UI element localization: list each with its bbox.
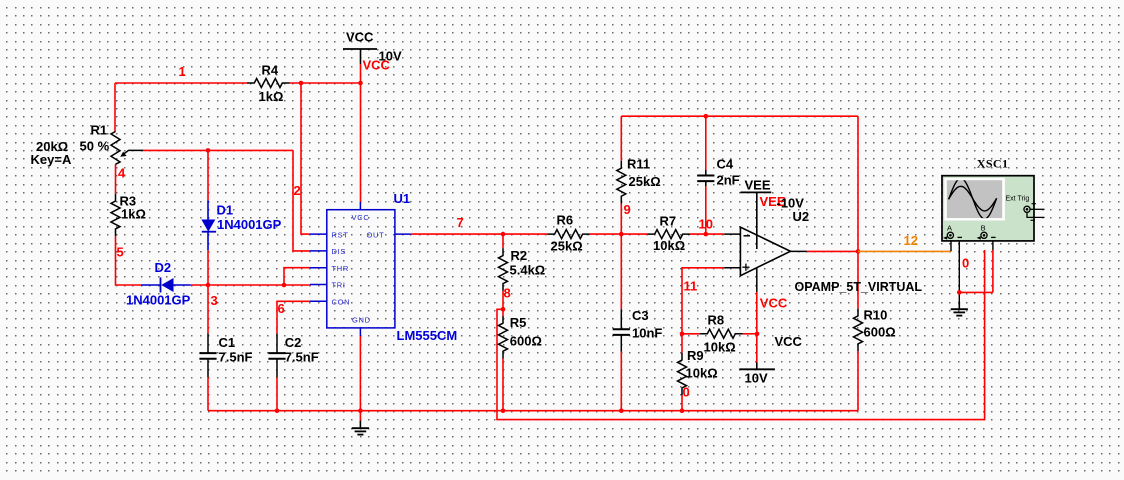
capacitor C3 [613,309,630,351]
net label 9 [624,202,631,217]
label R10 [864,308,888,323]
value C4 [717,173,740,188]
net label 6 [278,301,285,316]
wire net 11 opamp + input [682,268,724,334]
resistor R6 [547,230,590,239]
capacitor C1 [199,333,216,377]
value R1 20k [36,139,68,154]
svg-text:1N4001GP: 1N4001GP [217,217,282,232]
svg-text:R1: R1 [91,123,108,138]
value R10 [864,325,896,340]
value R11 [629,174,661,189]
wire ground bus [208,410,858,412]
wire net 4 [115,164,117,193]
wire R11 bottom lead [620,204,622,235]
XSC1 label Ext Trig [1006,195,1030,202]
wire R9 bottom lead [681,395,683,410]
capacitor C4 [697,170,714,186]
junction node1/VCC [358,81,363,86]
svg-text:VCC: VCC [775,334,803,349]
XSC1 ext trig terminal [1024,202,1045,221]
junction node1/RST [299,81,304,86]
svg-text:C1: C1 [219,335,236,350]
label D2 [155,260,172,275]
junction node11/R8/R9 [680,332,685,337]
svg-text:U2: U2 [793,209,810,224]
value R9 [686,366,718,381]
wire scope A- to ground [958,241,960,309]
svg-text:7.5nF: 7.5nF [219,350,253,365]
svg-text:10kΩ: 10kΩ [653,238,685,253]
oscilloscope XSC1 body and screen [942,176,1034,241]
value C2 [285,350,319,365]
wire net 7 [411,233,548,235]
U1 pin label TRI [332,281,346,290]
wire opamp VCC column [756,292,758,363]
XSC1 terminal A [943,232,962,239]
svg-text:8: 8 [504,286,511,301]
wire R10 bottom [857,351,859,411]
diode D1 [201,200,216,250]
power VCC symbol bottom [739,334,802,386]
wire net 7 right of R6 [590,233,648,235]
resistor R2 [499,248,508,291]
wire opamp output [807,250,858,252]
net label 7 [457,215,464,230]
wire net 3 D1 bottom to C1 [207,250,209,333]
wire net 9 right of R7 [690,233,724,235]
wire R11 top lead [620,116,622,161]
U2 output pin [790,250,806,252]
svg-text:9: 9 [624,202,631,217]
resistor R7 [647,230,690,239]
junction bus/R9 [680,408,685,413]
wire scope A+ stub [950,238,952,251]
svg-text:R4: R4 [262,63,279,78]
svg-text:R10: R10 [864,308,888,323]
wire RST branch [301,83,310,234]
resistor R3 [111,194,120,237]
value R7 [653,238,685,253]
junction net7/R2 [501,232,506,237]
svg-text:4: 4 [118,166,126,181]
potentiometer R1 [111,132,143,165]
U1 pin label VCC [352,213,370,222]
svg-text:VCC: VCC [760,296,788,311]
junction net9 [619,232,624,237]
net label 3 [211,293,218,308]
junction bus/R5 [501,408,506,413]
net label 4 [118,166,126,181]
label R1 [91,123,108,138]
XSC1 terminal B [977,232,996,239]
junction R8/VCC [755,332,760,337]
net label 1 [179,64,186,79]
net label 10 [699,217,713,232]
svg-text:12: 12 [904,233,918,248]
svg-text:Ext Trig: Ext Trig [1006,195,1030,202]
label C3 [632,308,649,323]
wire VCC column to U1 VCC pin [360,64,362,202]
net label VCC (red) bottom [760,296,788,311]
junction bus/C2 [275,408,280,413]
svg-text:R6: R6 [557,213,574,228]
U1 pin label RST [332,230,349,239]
wire net 1 left rail [115,83,247,132]
junction net3/D1 [206,283,211,288]
U2 noninverting input pin [724,267,740,269]
label R9 [687,348,704,363]
U1 pin label OUT [367,230,385,239]
power VCC symbol top [343,30,402,65]
svg-text:1N4001GP: 1N4001GP [126,293,191,308]
wire C1 bottom [207,377,209,410]
junction net2/D1 top [206,148,211,153]
svg-text:CON: CON [332,298,351,307]
svg-text:10: 10 [699,217,713,232]
wire R8 right lead [743,333,758,335]
wire C3 bottom lead [620,352,622,411]
op-amp U1 LM555 body [327,210,395,328]
svg-text:XSC1: XSC1 [977,157,1009,171]
value R5 [510,334,542,349]
wire R2 top lead [502,234,504,248]
ground symbol scope [951,302,968,316]
U2 minus sign [744,235,751,237]
svg-text:R2: R2 [511,248,528,263]
XSC1 label B [981,223,986,232]
wire feedback down R10 column [857,116,859,308]
svg-text:1kΩ: 1kΩ [259,89,284,104]
svg-text:6: 6 [278,301,285,316]
U1 pin TRI stub [310,284,327,286]
junction loop/C4 [704,114,709,119]
svg-text:Key=A: Key=A [31,152,72,167]
svg-text:D2: D2 [155,260,172,275]
svg-text:C3: C3 [632,308,649,323]
U1 pin label THR [332,264,350,273]
U1 pin GND stub [359,328,361,336]
U2 plus sign [742,264,749,271]
U2 bottom power pin [756,268,758,292]
svg-text:7.5nF: 7.5nF [285,350,319,365]
wire C4 top lead [705,116,707,170]
value D1 [217,217,282,232]
svg-text:VCC: VCC [363,58,391,73]
svg-text:10V: 10V [745,371,768,386]
label C4 [717,157,734,172]
resistor R9 [678,353,687,396]
svg-text:LM555CM: LM555CM [397,328,458,343]
wire C2 bottom [276,377,278,410]
net label 5 [117,245,124,260]
junction output node 12 [856,249,861,254]
svg-text:1kΩ: 1kΩ [121,207,146,222]
label R2 [511,248,528,263]
value R6 [551,239,583,254]
svg-text:D1: D1 [217,203,234,218]
label C2 [285,335,302,350]
value C1 [219,350,253,365]
svg-text:5.4kΩ: 5.4kΩ [510,263,546,278]
value -10V [777,196,805,211]
label U2 [793,209,810,224]
wire node8 branch to scope B [497,250,985,420]
svg-text:5: 5 [117,245,124,260]
svg-text:R8: R8 [708,313,725,328]
label R11 [627,157,650,172]
svg-text:R5: R5 [510,315,527,330]
wire R5 bottom [502,359,504,411]
value R8 [704,340,736,355]
svg-text:OPAMP_5T_VIRTUAL: OPAMP_5T_VIRTUAL [795,280,923,294]
wire net 12 to scope A (orange) [858,250,951,252]
U1 pin label CON [332,298,351,307]
svg-text:VCC: VCC [352,213,370,222]
capacitor C2 [268,333,285,377]
label R6 [557,213,574,228]
XSC1 label A [947,223,952,232]
power VEE symbol [740,178,771,250]
U1 pin OUT stub [395,233,411,235]
net label 2 [294,183,301,198]
U1 pin label DIS [332,247,347,256]
U1 pin CON stub [310,300,327,302]
svg-text:600Ω: 600Ω [510,334,542,349]
ground symbol main [352,421,369,435]
label U1 [394,191,411,206]
wire U1 GND to bus [359,336,361,421]
wire node 8 R2-R5 [502,291,504,316]
wire net 5 [116,236,142,285]
label R7 [660,214,677,229]
svg-text:25kΩ: 25kΩ [551,239,583,254]
value D2 [126,293,191,308]
U1 pin VCC stub [359,202,361,210]
wire C4 bottom lead [705,186,707,234]
wire net 1 right of R4 [290,82,361,84]
svg-text:50 %: 50 % [80,139,110,154]
resistor R10 [854,309,863,352]
U2 inverting input pin [724,233,740,235]
wire feedback top loop [621,115,858,117]
label D1 [217,203,234,218]
svg-text:RST: RST [332,230,349,239]
svg-text:R9: R9 [687,348,704,363]
svg-text:10kΩ: 10kΩ [686,366,718,381]
U1 pin THR stub [310,267,327,269]
svg-text:600Ω: 600Ω [864,325,896,340]
label R8 [708,313,725,328]
label C1 [219,335,236,350]
label R4 [262,63,279,78]
svg-text:3: 3 [211,293,218,308]
net label 12 (orange) [904,233,918,248]
net label VEE (red) [760,194,786,209]
svg-text:C4: C4 [717,157,734,172]
net label 0 at R9 [683,385,690,400]
net label 11 [684,279,698,294]
wire scope B- down [992,241,994,293]
label R3 [120,194,137,209]
svg-text:10kΩ: 10kΩ [704,340,736,355]
wire net 2 wiper row [143,149,293,151]
wire D1 top lead connection [207,150,209,200]
svg-text:OUT: OUT [367,230,385,239]
svg-text:THR: THR [332,264,350,273]
resistor R11 [617,161,626,204]
svg-text:10nF: 10nF [632,326,662,341]
value C3 [632,326,662,341]
svg-text:0: 0 [962,256,969,271]
label XSC1 [977,157,1009,171]
svg-text:0: 0 [683,385,690,400]
junction bus/C3 [619,408,624,413]
U1 pin DIS stub [310,250,327,252]
svg-text:7: 7 [457,215,464,230]
value U2 [795,280,923,294]
wire C3 top lead [620,234,622,309]
wire net 6 CON [277,301,310,333]
svg-text:C2: C2 [285,335,302,350]
svg-text:B: B [981,223,986,232]
wire scope minus link [959,291,993,293]
svg-text:25kΩ: 25kΩ [629,174,661,189]
svg-text:VCC: VCC [346,30,374,45]
label R5 [510,315,527,330]
value R1 percent [80,139,110,154]
junction net3/THR [282,283,287,288]
svg-text:VEE: VEE [745,178,771,193]
wire net 3 THR stub [284,268,310,285]
junction net10 row [704,232,709,237]
U1 pin RST stub [310,233,327,235]
wire R9 top lead [681,334,683,353]
diode D2 [141,277,191,292]
value R2 [510,263,546,278]
value R1 key [31,152,72,167]
svg-text:2: 2 [294,183,301,198]
net label 8 [504,286,511,301]
value R3 1k [121,207,146,222]
value U1 LM555CM [397,328,458,343]
net label VCC (red) top [363,58,391,73]
resistor R8 [700,329,743,338]
svg-text:R7: R7 [660,214,677,229]
U1 pin label GND [352,315,371,324]
resistor R5 [499,316,508,359]
svg-text:R11: R11 [627,157,650,172]
op-amp U2 triangle [740,227,790,276]
svg-text:GND: GND [352,315,371,324]
svg-text:U1: U1 [394,191,411,206]
svg-text:2nF: 2nF [717,173,740,188]
svg-text:DIS: DIS [332,247,347,256]
svg-text:A: A [947,223,952,232]
svg-text:TRI: TRI [332,281,346,290]
svg-text:11: 11 [684,279,698,294]
net label 0 at scope [962,256,969,271]
value R4 1k [259,89,284,104]
junction scope ground [957,290,962,295]
wire net 2 down to DIS [293,150,310,251]
wire R8 left lead [682,333,700,335]
svg-text:1: 1 [179,64,186,79]
resistor R4 [247,79,290,88]
junction node8 [501,307,506,312]
junction bus/GND [358,408,363,413]
wire net 3 TRI row [191,284,311,286]
